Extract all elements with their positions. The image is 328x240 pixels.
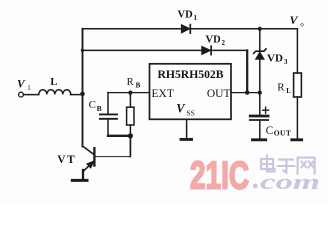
capacitor COUT bottom plate [250, 119, 268, 121]
inductor L [39, 90, 71, 95]
label Vo [290, 13, 305, 28]
wire OUT pin to zener node [231, 92, 260, 94]
svg-text:C: C [89, 99, 96, 111]
wire main vertical rail (collector node line) [82, 29, 84, 147]
svg-text:RH5RH502B: RH5RH502B [158, 67, 224, 81]
node RB top [128, 91, 132, 95]
op-amp U1: chip RH5RH502B body [150, 64, 232, 120]
ground at RL [292, 138, 302, 141]
wire input terminal to inductor [24, 94, 39, 96]
node VD2 drop at OUT wire [245, 90, 249, 94]
wire zener branch vertical [259, 29, 261, 93]
wire VD2 to corner [211, 49, 247, 51]
label VD1 [178, 10, 198, 23]
transistor VT emitter arrowhead [87, 162, 93, 168]
svg-text:2: 2 [222, 39, 226, 47]
capacitor COUT bottom lead [259, 120, 261, 138]
label V1 [17, 78, 31, 92]
transistor VT collector lead [83, 146, 94, 154]
svg-text:R: R [277, 82, 285, 94]
node zener at OUT wire [258, 91, 262, 95]
svg-text:VD: VD [178, 10, 194, 21]
resistor RB body [127, 107, 134, 125]
capacitor CB top plate [100, 113, 117, 115]
input terminal V1 [19, 92, 24, 97]
resistor RL body [294, 73, 302, 97]
resistor RB bottom lead [129, 125, 131, 136]
svg-text:R: R [127, 77, 134, 88]
diode VD1 [181, 25, 189, 33]
wire base drop [129, 136, 131, 157]
capacitor CB bottom lead [107, 119, 109, 136]
wire VD2 rail left segment [83, 49, 202, 51]
capacitor COUT plus sign [263, 107, 269, 113]
node VD2 rail junction [81, 49, 84, 52]
zener diode VD3 [256, 52, 265, 59]
resistor RL bottom lead [296, 97, 298, 138]
label COUT [266, 125, 292, 138]
svg-text:V: V [290, 13, 299, 27]
capacitor COUT top lead [259, 93, 261, 116]
wire CB bottom to RB bottom node [108, 135, 130, 137]
svg-text:V: V [17, 78, 26, 90]
svg-text:VD: VD [206, 35, 222, 46]
svg-text:VT: VT [57, 154, 76, 166]
wire inductor to collector node [71, 94, 83, 96]
svg-text:L: L [50, 77, 57, 88]
label pin VSS [176, 102, 195, 118]
wire EXT pin [108, 92, 150, 94]
wire emitter drop [82, 170, 84, 179]
node zener at top rail [258, 27, 262, 31]
svg-text:o: o [300, 20, 304, 28]
label VD3 [267, 52, 288, 66]
label VD2 [206, 35, 226, 48]
svg-text:3: 3 [284, 58, 288, 66]
diode VD2 [202, 46, 211, 54]
watermark logo 21IC [190, 154, 258, 197]
svg-text:com: com [260, 169, 320, 194]
svg-text:OUT: OUT [207, 88, 231, 100]
ground at chip VSS [181, 138, 192, 141]
node RB bottom [128, 133, 133, 138]
transistor VT base bar [93, 148, 95, 165]
svg-text:21IC: 21IC [190, 154, 249, 197]
label RL [277, 82, 291, 96]
wire base of VT [95, 156, 131, 158]
svg-text:L: L [286, 87, 291, 95]
svg-text:VD: VD [267, 52, 283, 64]
capacitor COUT top plate [250, 115, 268, 118]
svg-text:V: V [176, 102, 186, 116]
resistor RB top lead [129, 93, 131, 108]
svg-text:1: 1 [194, 14, 198, 22]
ground at COUT [253, 138, 266, 141]
label RB [127, 77, 141, 90]
label CB [89, 99, 102, 113]
transistor VT emitter lead [84, 161, 94, 170]
svg-text:1: 1 [27, 84, 31, 92]
capacitor CB bottom plate [100, 118, 117, 120]
capacitor CB top lead [107, 93, 109, 115]
svg-text:SS: SS [187, 109, 195, 118]
wire VD2 drop to OUT node [246, 50, 248, 92]
svg-text:C: C [266, 125, 274, 137]
wire VSS pin lead [186, 119, 188, 138]
svg-text:B: B [97, 104, 102, 113]
svg-text:EXT: EXT [152, 88, 174, 100]
svg-text:B: B [136, 82, 141, 90]
ground at VT emitter [72, 179, 87, 182]
wire VD1 to output corner, down to RL [190, 29, 297, 73]
svg-text:OUT: OUT [274, 129, 291, 138]
wire top rail to VD1 [83, 28, 182, 30]
node collector junction [80, 92, 85, 97]
watermark chinese characters dian zi wang [261, 156, 315, 174]
